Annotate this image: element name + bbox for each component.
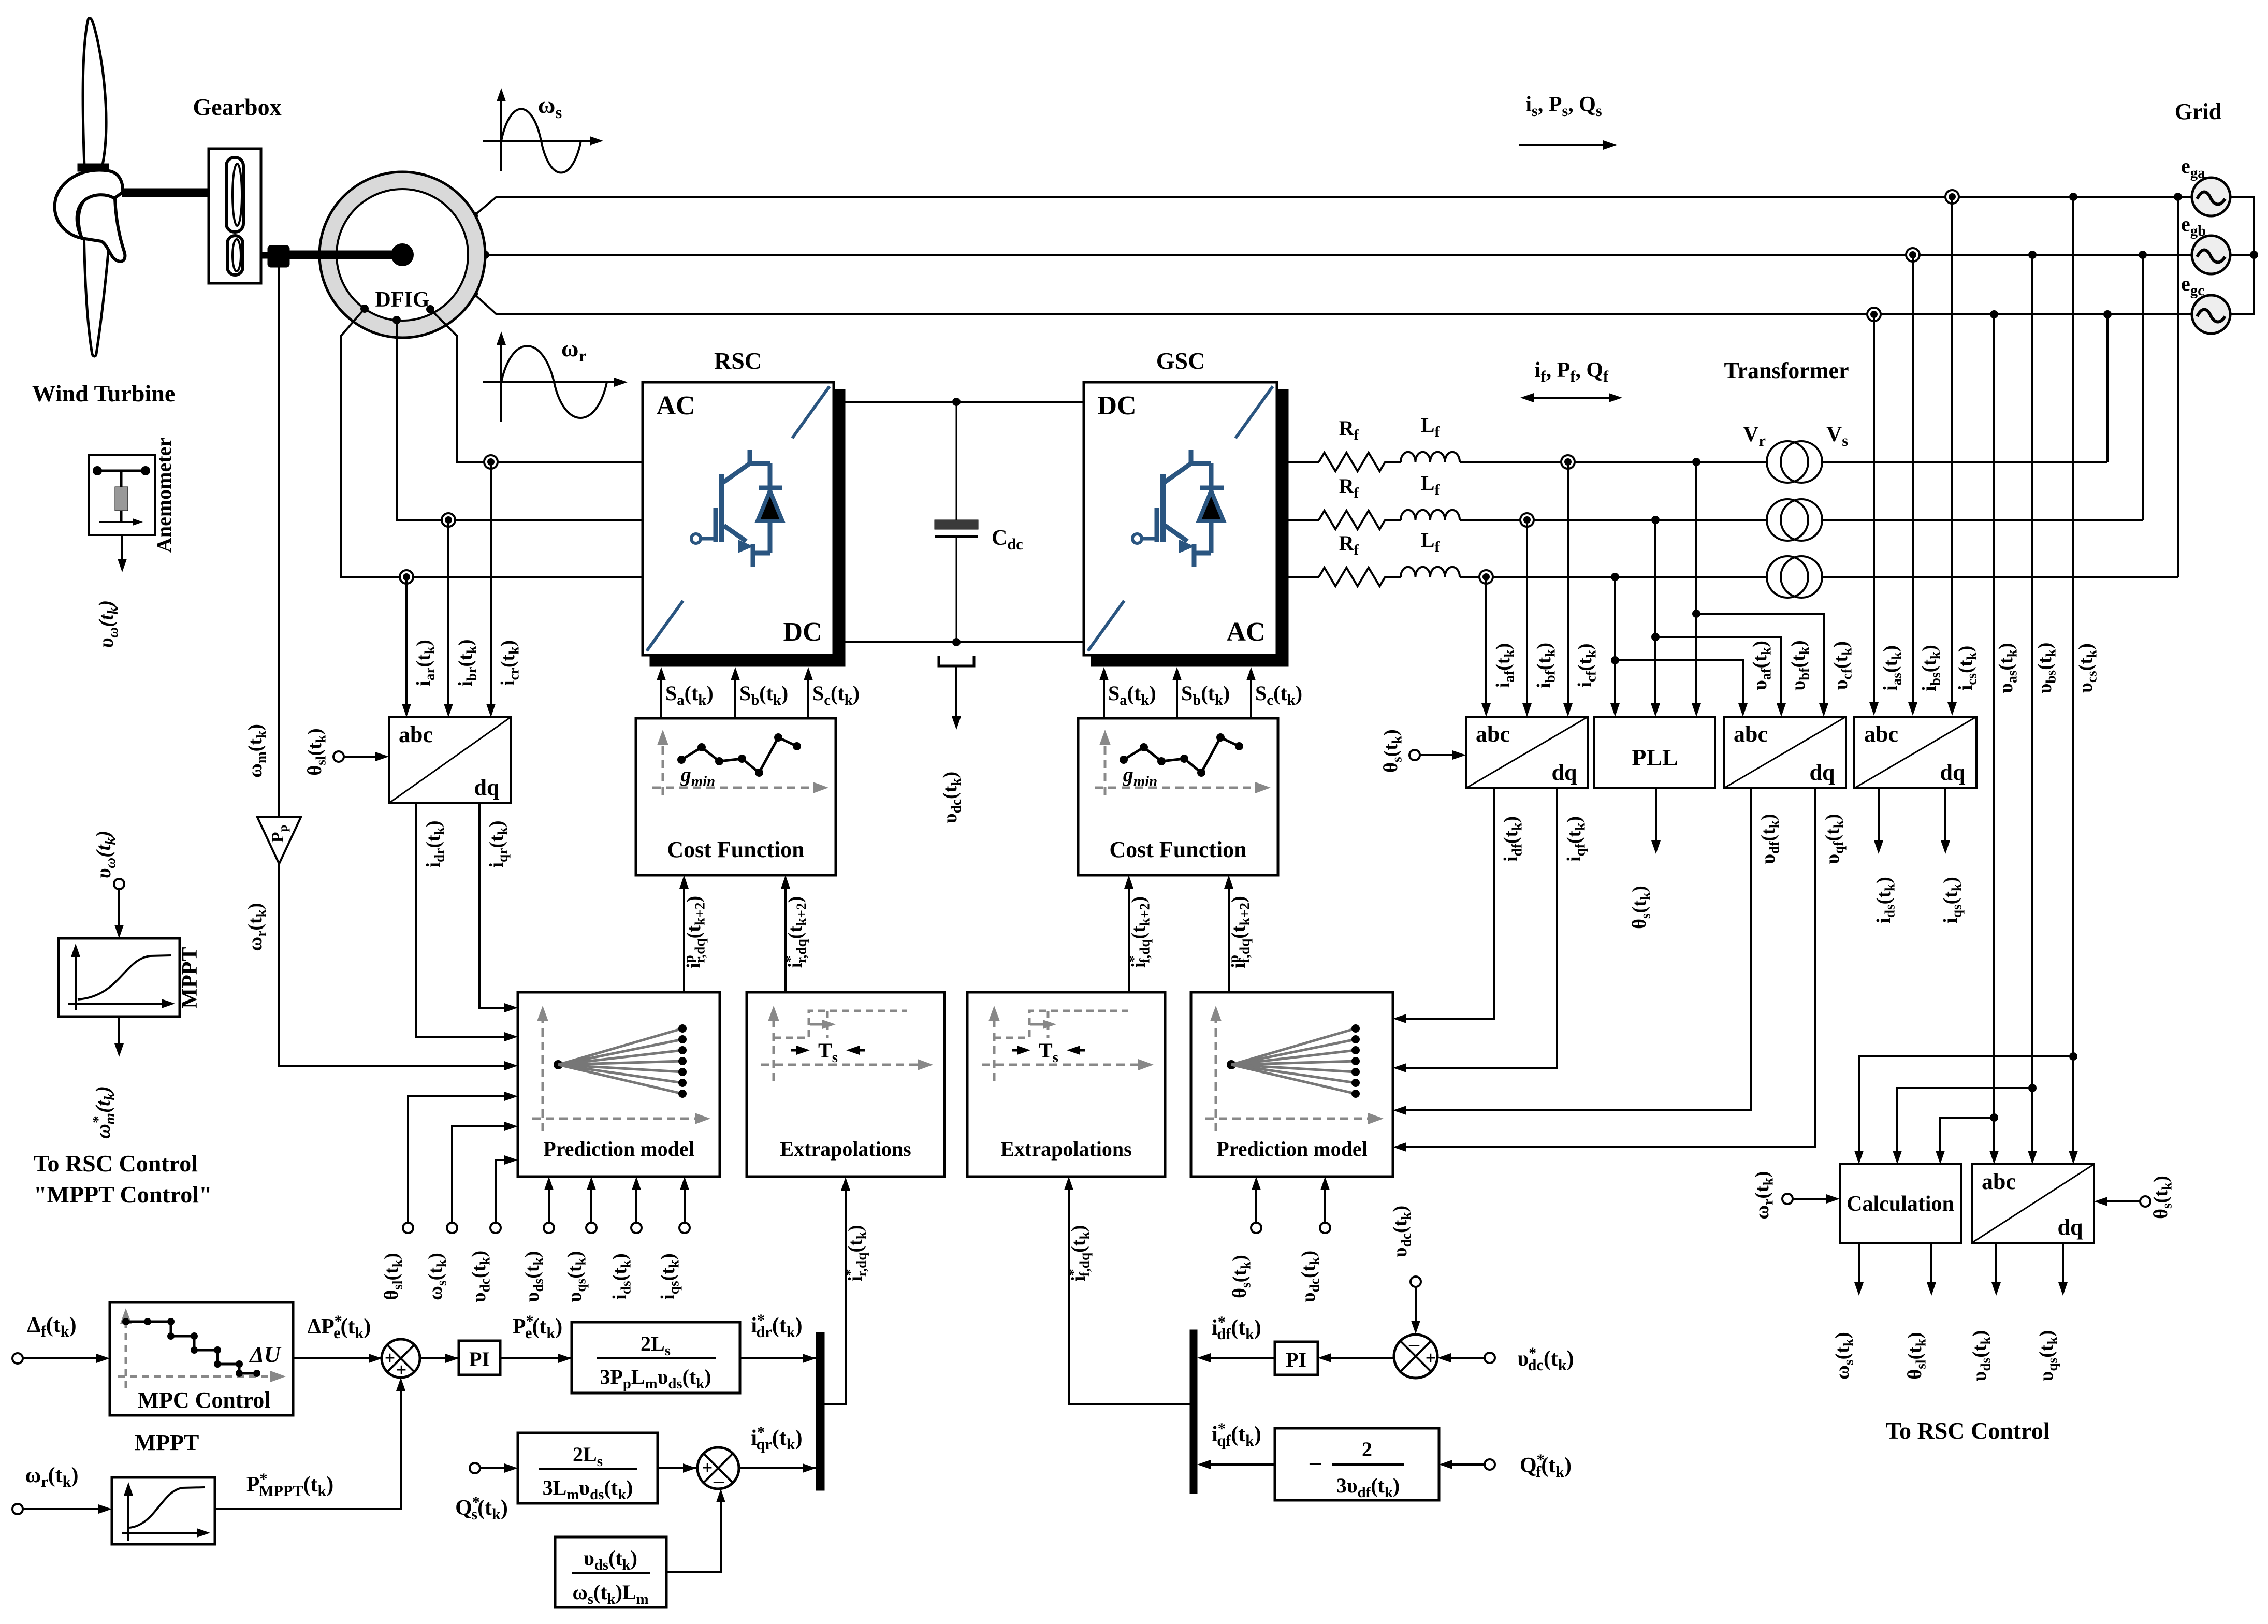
arrow v_df into prediction model [1393,1106,1406,1115]
wire GSC output phase 3 [1288,576,1319,578]
wire i_df output [1399,788,1494,1019]
terminal v_dc bottom [490,1223,501,1233]
wire omega_m from shaft [278,267,280,817]
node tap PLL phase c [1611,573,1619,581]
wire S_b RSC [734,673,736,718]
wire PLL input c [1614,577,1616,711]
wire i_dr output [416,803,512,1037]
wire v_cs vertical [2072,197,2074,1158]
svg-text:ΔU: ΔU [249,1342,282,1367]
wire S_c RSC [807,673,809,718]
transformer winding pair 3 [1767,556,1822,598]
wire S_a GSC [1103,673,1105,718]
wire v_w output [121,535,123,567]
wire transformer secondary 1 [1822,461,2107,463]
node tap v_bs on phase b [2028,251,2037,259]
arrow v_cf into abc-dq [1819,703,1828,717]
wire v_df output [1399,788,1751,1110]
mux bar GSC references [1190,1330,1197,1494]
block abc-dq rotor currents [389,717,511,803]
arrow i_cr into abc-dq [486,704,496,717]
wire PI to fraction [500,1357,572,1359]
wire v_dc into sum3 [1415,1287,1417,1328]
wire v_cf branch [1696,614,1824,711]
wire i_qf output [1399,788,1557,1068]
arrow into PI [445,1354,459,1363]
transformer winding pair 1 [1767,441,1822,483]
svg-text:θs​(tk​): θs​(tk​) [1629,886,1653,929]
arrow v_dc into sum3 [1411,1321,1420,1334]
inductor L_f 1 [1401,452,1460,462]
arrow P_MPPT into sum [396,1378,405,1391]
svg-text:Extrapolations: Extrapolations [1000,1137,1131,1161]
wire v_bf branch [1655,637,1781,711]
wire i_cs measurement [1951,197,1953,710]
block MPC Control [110,1302,293,1415]
arrow i_df into prediction model [1393,1014,1406,1023]
transformer winding pair 2 [1767,499,1822,541]
wire DC link negative [845,641,1084,643]
arrow PLL input a [1692,703,1701,717]
block PLL [1594,717,1715,788]
arrow stator power flow [1519,144,1603,146]
svg-text:Sb​(tk​): Sb​(tk​) [739,682,788,708]
arrow v_w into MPPT [114,925,124,938]
wire v_dc gsc up [1324,1182,1326,1223]
arrow v_bf into abc-dq [1777,703,1786,717]
svg-text:Transformer: Transformer [1724,358,1849,383]
svg-text:Calculation: Calculation [1847,1192,1954,1216]
node tap secondary c [2174,193,2182,201]
wire i_qs output [1944,788,1946,840]
wire iS_fdq from mux [1069,1182,1190,1404]
svg-text:Cost Function: Cost Function [1109,837,1246,862]
arrow i_ds output [1874,840,1883,854]
AC source e_gb [2192,236,2230,274]
arrow omega_m* output [114,1043,124,1057]
gearbox gear 1 [226,157,243,232]
wire filter to transformer 2 [1460,519,1767,521]
wire i_bs measurement [1912,255,1914,710]
wire stator phase c (DFIG to grid) [474,294,2192,314]
arrow DeltaP into sum [369,1354,382,1363]
capacitor C_dc [935,402,978,642]
node rotor tap c [426,305,434,313]
wire theta_s output of PLL [1655,788,1657,840]
svg-text:υω​(tk​): υω​(tk​) [94,600,121,648]
svg-text:Sb​(tk​): Sb​(tk​) [1181,682,1230,708]
svg-text:To RSC Control: To RSC Control [1886,1417,2050,1444]
arrow v_qf into prediction model [1393,1142,1406,1152]
svg-text:DC: DC [783,617,822,647]
svg-text:–: – [1408,1332,1420,1355]
arrow i_ds pm [632,1177,641,1190]
arrow S_c into RSC [804,667,813,680]
terminal v_qs bottom [586,1223,597,1233]
wire filter to transformer 3 [1460,576,1767,578]
svg-text:+: + [1426,1347,1436,1368]
arrow v_qs pm [587,1177,596,1190]
wire v_ds up [548,1182,550,1223]
node junction v_as branch [1990,1113,1998,1122]
arrow theta_sl pm [504,1092,518,1101]
arrow PLL input c [1610,703,1620,717]
arrow v_dc pm [504,1155,518,1165]
arrow i_qs pm [680,1177,689,1190]
arrow omega_s pm [504,1122,518,1131]
arrow i_ar into abc-dq [402,704,411,717]
svg-text:AC: AC [1226,617,1265,647]
svg-text:dq: dq [1810,760,1835,785]
terminal v_dc meas [1411,1277,1421,1287]
node junction v_bs branch [2028,1084,2037,1092]
wire filter to transformer 1 [1460,461,1767,463]
svg-text:i*​dr​(tk​): i*​dr​(tk​) [751,1311,802,1341]
svg-text:abc: abc [399,722,433,747]
wire PI2 to mux2 [1203,1357,1275,1359]
terminal v_ds bottom [544,1223,554,1233]
node stator tap a on DFIG [470,212,478,220]
svg-text:i*​qr​(tk​): i*​qr​(tk​) [751,1424,802,1454]
svg-text:DC: DC [1097,391,1136,421]
wire vds/wsLm to sum2 [666,1495,721,1572]
wire PLL input a [1695,462,1697,711]
wire rotor phase 3 (to RSC) [341,309,643,577]
AC source e_ga [2192,178,2230,216]
svg-text:RSC: RSC [714,347,762,374]
node ring tap i_ar [400,570,413,584]
arrow omega_r into prediction model [504,1061,518,1070]
wire v_bs to Calculation [1897,1088,2032,1158]
wire rotor phase 2 (to RSC) [397,320,643,520]
svg-text:PI: PI [1286,1348,1306,1371]
wire GSC output phase 1 [1288,461,1319,463]
wire Q_f* to fraction4 [1445,1463,1485,1466]
wire v_dc* to sum3 [1443,1357,1485,1359]
block abc-dq filter voltages [1724,717,1846,788]
arrow S_b into RSC [731,667,740,680]
svg-text:abc: abc [1476,721,1510,747]
wire fraction to sum2 [658,1467,696,1469]
arrow i_bf into abc-dq [1522,703,1532,717]
node junction v_cf [1692,610,1700,618]
arrow Delta_f into MPC [23,1357,96,1359]
sum junction v_dc [1394,1332,1437,1378]
arrow v_dc* into sum3 [1437,1353,1451,1362]
terminal Q_f* [1485,1459,1495,1470]
svg-text:PI: PI [469,1347,490,1371]
arrow iS_rdq into extrapolations [841,1177,850,1191]
wire theta_sl to prediction model [408,1096,512,1223]
arrow i_dr* into mux [803,1354,816,1363]
wire secondary connection c [2177,197,2179,577]
arrow into sum2 [683,1463,696,1473]
block abc-dq stator currents [1854,717,1976,788]
arrow omega_r into Calculation [1793,1198,1826,1200]
wire v_ds out [1995,1243,1997,1290]
node ring tap i_bs on phase b [1906,248,1920,262]
wire rotor phase 1 (to RSC) [430,309,643,462]
node rotor tap a [360,304,369,313]
wire v_w into MPPT [118,889,120,933]
resistor R_f 2 [1319,511,1385,529]
resistor R_f 3 [1319,568,1385,586]
block Cost Function RSC [636,718,836,875]
terminal theta_sl bottom [403,1223,413,1233]
omega_r sine wave [501,346,607,418]
svg-text:"MPPT Control": "MPPT Control" [34,1181,212,1208]
wire P_MPPT to sum [215,1383,401,1509]
wire S_b GSC [1176,673,1178,718]
wire v_af branch [1615,660,1743,711]
block Extrapolations RSC [747,992,944,1177]
arrow into PI2 [1318,1353,1331,1362]
node tap secondary a [2103,310,2112,318]
arrow v_bs into Calculation [1893,1151,1902,1164]
arrow into fraction 2Ls/3PpLm [558,1354,572,1363]
svg-text:θs​(tk​): θs​(tk​) [1380,729,1404,773]
wire v_as vertical [1993,314,1995,1158]
wire v_qf output [1399,788,1815,1147]
block abc-dq filter currents [1466,717,1588,788]
arrow v_w output [118,559,127,572]
block MPPT left [59,938,180,1017]
wind turbine hub [55,170,123,238]
svg-text:abc: abc [1734,721,1768,747]
terminal i_ds bottom [631,1223,642,1233]
wire i_cr measurement [490,462,492,712]
wire i_bf measurement [1526,520,1528,711]
wire i_qr output [479,803,512,1008]
arrow v_as into abc-dq block [1989,1151,1999,1164]
wire i_qs up [684,1182,686,1223]
wire DC link positive [845,401,1084,403]
terminal v_w mppt [114,879,124,889]
svg-text:Sc​(tk​): Sc​(tk​) [812,682,860,708]
wire v_qs up [590,1182,592,1223]
node stator tap c on DFIG [470,289,478,298]
terminal omega_r calc [1782,1194,1793,1204]
DFIG stator ring [319,172,485,338]
block fraction 2Ls over 3Lmvds [518,1433,658,1503]
DFIG shaft inner segment [316,251,404,259]
wire S_a RSC [660,673,662,718]
arrow v_ds pm [544,1177,554,1190]
terminal Q_s* [470,1463,480,1473]
terminal v_dc gsc bottom [1320,1223,1330,1233]
wire GSC output phase 2 [1288,519,1319,521]
arrow iS_fdq [1124,875,1133,889]
shaft coupling stub [261,252,268,258]
wire omega_m* output [118,1017,120,1051]
wire R-L link 1 [1385,461,1401,463]
wire v_dc to prediction model [496,1160,512,1223]
svg-text:abc: abc [1864,721,1898,747]
terminal omega_s bottom [447,1223,457,1233]
wind turbine blade root bar [78,164,109,171]
arrow i_cf into abc-dq [1563,703,1573,717]
shaft turbine to gearbox [122,189,209,197]
arrow S_b into GSC [1172,667,1182,680]
arrow theta_s into abc-dq [1420,754,1452,756]
svg-text:Gearbox: Gearbox [193,94,281,120]
converter RSC [643,382,845,666]
svg-text:Extrapolations: Extrapolations [780,1137,911,1161]
wire i_as measurement [1873,314,1875,710]
arrow v_dc measurement [955,666,957,716]
wire omega_r to prediction model [279,864,512,1066]
arrow theta_s into abc-dq5 [2094,1197,2107,1206]
svg-text:Cost Function: Cost Function [667,837,804,862]
wire secondary connection b [2142,255,2144,520]
gearbox box [209,149,261,283]
svg-text:Prediction model: Prediction model [543,1137,694,1161]
inductor L_f 2 [1401,510,1460,520]
svg-text:MPPT: MPPT [135,1430,199,1455]
svg-text:Sa​(tk​): Sa​(tk​) [1108,682,1156,708]
node tap PLL phase b [1651,516,1660,524]
svg-text:P*​e​(tk​): P*​e​(tk​) [513,1312,562,1342]
arrow i_qf* into mux2 [1197,1460,1211,1469]
node DC link - junction [952,638,961,646]
mux bar RSC references [816,1332,824,1490]
node ring tap i_cf [1561,455,1575,469]
block Prediction model RSC [518,992,720,1177]
svg-text:PLL: PLL [1632,744,1678,771]
svg-text:−: − [1308,1451,1322,1478]
arrow theta_sl calc out [1927,1282,1936,1296]
svg-text:dq: dq [1940,760,1966,785]
svg-text:+: + [396,1359,407,1380]
svg-text:+: + [702,1457,713,1478]
arrow i_bs into abc-dq [1908,702,1917,716]
wire PLL input b [1654,520,1656,711]
svg-text:GSC: GSC [1156,347,1205,374]
node stator tap b on DFIG [481,251,489,259]
wire sum to PI [420,1357,459,1359]
omega_s axes [483,88,603,171]
terminal theta_s bottom [1251,1223,1261,1233]
node ring tap i_br [442,513,455,527]
block Cost Function GSC [1078,718,1278,875]
gearbox gear 2 [227,236,243,275]
wire R-L link 2 [1385,519,1401,521]
svg-text:MPC Control: MPC Control [137,1387,270,1413]
wire S_c GSC [1250,673,1252,718]
svg-text:i*​qf​(tk​): i*​qf​(tk​) [1212,1420,1261,1450]
wire theta_s up [1255,1182,1257,1223]
sum junction power [382,1339,420,1380]
shaft gearbox to DFIG [289,251,404,259]
wire grid neutral chain [2230,197,2254,314]
wire v_as to Calculation [1940,1118,1994,1158]
resistor R_f 1 [1319,453,1385,471]
arrow iP_fdq [1224,875,1233,889]
svg-text:Anemometer: Anemometer [152,438,176,553]
wire transformer secondary 2 [1822,519,2143,521]
arrow S_a into RSC [657,667,666,680]
svg-text:Sc​(tk​): Sc​(tk​) [1255,682,1302,708]
node rotor tap b [392,316,401,324]
node tap secondary b [2139,251,2147,259]
svg-text:–: – [713,1469,724,1492]
block fraction -2 over 3vdf [1275,1428,1439,1501]
omega_r axes [483,331,628,422]
wire stator phase b (DFIG to grid) [485,254,2192,256]
arrow omega_r into MPPT [23,1508,98,1510]
wire omega_s calc out [1858,1243,1860,1290]
svg-text:AC: AC [656,391,695,421]
terminal i_qs bottom [679,1223,690,1233]
svg-text:θs​(tk​): θs​(tk​) [1229,1255,1253,1298]
wire iS_fdq to cost function [1128,881,1130,992]
wire i_dr* to mux [740,1357,816,1359]
sum junction i_qr [697,1447,739,1492]
terminal Delta_f [12,1353,23,1364]
arrow v_cs into abc-dq block [2069,1151,2078,1164]
node junction v_af [1611,656,1619,664]
svg-text:Wind Turbine: Wind Turbine [32,380,176,407]
arrow iP_rdq [679,875,689,889]
wire v_bs vertical [2031,255,2033,1158]
arrow i_dr into prediction model [504,1032,518,1041]
arrow theta_s output [1651,840,1661,854]
node tap v_as on phase c [1990,310,1998,318]
block MPPT curve [112,1477,215,1544]
DFIG rotor circle [337,189,468,321]
node ring tap i_af [1479,570,1493,584]
arrow theta_s pm [1252,1177,1261,1190]
arrow i_qf into prediction model [1393,1063,1406,1072]
wire iP_rdq to cost function [683,881,685,992]
wind turbine nose cone [79,195,125,262]
svg-text:dq: dq [474,775,500,800]
node ring tap i_as on phase c [1867,308,1881,321]
wire v_qs out [2062,1243,2064,1290]
svg-text:θs​(tk​): θs​(tk​) [2150,1176,2174,1219]
inductor L_f 3 [1401,567,1460,577]
arrow theta_sl into abc-dq [344,756,375,758]
arrow Q_s* into fraction [480,1467,504,1469]
arrow iS_fdq into extrapolations [1064,1177,1073,1190]
arrow into sum2 bottom [716,1489,725,1502]
wire secondary connection a [2106,314,2109,462]
wire i_br measurement [447,520,449,712]
wire i_ds output [1878,788,1880,840]
svg-text:Sa​(tk​): Sa​(tk​) [665,682,714,708]
wire omega_s to prediction model [452,1126,512,1223]
wire i_cf measurement [1567,462,1569,711]
block Extrapolations GSC [967,992,1165,1177]
arrow v_qs out [2058,1282,2068,1296]
svg-text:DFIG: DFIG [375,288,430,312]
block fraction 2Ls over 3PpLmvds [572,1322,740,1393]
terminal v_dc* ref [1485,1353,1495,1363]
svg-text:abc: abc [1982,1169,2016,1194]
omega_s sine wave [501,109,581,173]
wire i_af measurement [1485,577,1487,711]
node tap PLL phase a [1692,458,1700,466]
svg-text:Prediction model: Prediction model [1216,1137,1367,1161]
block Prediction model GSC [1191,992,1393,1177]
arrow i_cs into abc-dq [1947,702,1957,716]
wire iS_rdq to cost function [784,881,787,992]
block Calculation [1840,1164,1961,1243]
arrow v_af into abc-dq [1738,703,1748,717]
arrow i_af into abc-dq [1481,703,1491,717]
svg-text:i*​df​(tk​): i*​df​(tk​) [1212,1313,1261,1343]
arrow omega_s calc out [1854,1282,1864,1296]
